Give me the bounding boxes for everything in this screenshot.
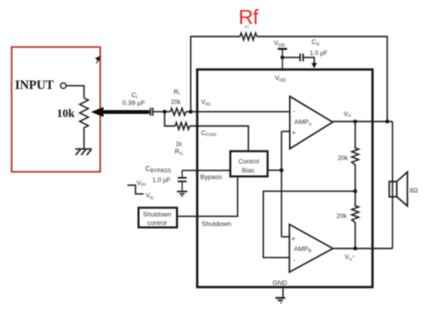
svg-text:20k: 20k bbox=[338, 155, 349, 162]
chassis ground (input) bbox=[75, 149, 92, 155]
capacitor CS 1.0uF bbox=[300, 54, 303, 62]
ground arrow (CS) bbox=[311, 63, 317, 68]
node dot Rf/Vo- bbox=[385, 120, 389, 124]
svg-text:Rf: Rf bbox=[239, 6, 259, 29]
potentiometer VR1 10k bbox=[80, 98, 89, 132]
wire terminal to potentiometer top bbox=[66, 86, 84, 98]
shutdown control block bbox=[139, 208, 178, 228]
wire bias vertical bbox=[281, 131, 283, 236]
wire bias to AMP A non-inverting input bbox=[282, 130, 290, 132]
node Vo+ dot bbox=[353, 247, 357, 251]
node A junction dot bbox=[163, 110, 167, 114]
wire VIN node into AMP A inverting input bbox=[186, 111, 290, 113]
wire Ci to node A bbox=[154, 111, 171, 113]
svg-text:20k: 20k bbox=[171, 100, 182, 106]
thick annotation arrow pointing at pot wiper bbox=[91, 107, 150, 117]
svg-text:+: + bbox=[291, 236, 295, 243]
step waveform symbol VIH/VIL bbox=[127, 185, 143, 194]
speaker driver bbox=[389, 182, 397, 197]
wire feedback riser VIN node to Rf bbox=[191, 37, 240, 112]
op-amp AMP A bbox=[290, 96, 333, 149]
svg-text:Shutdown: Shutdown bbox=[143, 211, 172, 218]
svg-text:GND: GND bbox=[273, 280, 288, 287]
wire bias to AMP B non-inverting input bbox=[282, 236, 290, 238]
svg-text:20k: 20k bbox=[336, 213, 347, 220]
op-amp AMP B bbox=[289, 224, 333, 272]
input terminal circle bbox=[61, 83, 67, 89]
svg-text:0.39 µF: 0.39 µF bbox=[122, 100, 145, 107]
node VIN junction dot bbox=[189, 110, 193, 114]
IC package box U1 bbox=[197, 70, 372, 288]
wire feedback to AMP B inverting input bbox=[263, 191, 355, 257]
supply VDD T symbol bbox=[278, 49, 287, 70]
wire bypass pin to control bias bbox=[182, 169, 230, 171]
cursor mark at red box top right bbox=[96, 57, 100, 64]
svg-text:1.0 µF: 1.0 µF bbox=[310, 50, 328, 57]
wire Vo+ output net bbox=[333, 248, 393, 250]
svg-text:control: control bbox=[147, 220, 166, 227]
node bias junction dot bbox=[280, 168, 284, 172]
node VDD junction dot bbox=[281, 56, 285, 60]
wire VDD node to CS bbox=[282, 56, 299, 58]
wire shutdown pin to control bias bottom bbox=[177, 176, 238, 216]
resistor 20k upper bbox=[352, 122, 359, 192]
svg-text:1k: 1k bbox=[176, 142, 183, 148]
resistor Ri 20k bbox=[170, 108, 186, 115]
resistor RC 1k bbox=[175, 123, 189, 130]
node mid 20k junction dot bbox=[353, 189, 357, 193]
resistor Rf bbox=[240, 33, 257, 40]
wire pot bottom to ground bbox=[83, 132, 85, 149]
wire speaker vertical bbox=[392, 122, 394, 249]
wire RC to CCHG pin and control bias top bbox=[190, 126, 249, 151]
svg-text:Bypass: Bypass bbox=[200, 174, 222, 181]
svg-text:10k: 10k bbox=[57, 108, 76, 120]
svg-text:+: + bbox=[292, 130, 296, 137]
wire 1k branch from node A bbox=[165, 112, 176, 126]
svg-text:Control: Control bbox=[238, 158, 259, 165]
wire Rf to Vo- node (feedback) bbox=[257, 37, 387, 122]
ground (CBYPASS) bbox=[177, 192, 187, 197]
speaker cone bbox=[397, 172, 408, 206]
wire control bias to bias node bbox=[268, 169, 282, 171]
capacitor Ci 0.39uF plates bbox=[151, 108, 153, 116]
wire CS to ground arrow bbox=[303, 57, 314, 63]
wire Vo- output net bbox=[333, 121, 393, 123]
svg-text:Shutdown: Shutdown bbox=[202, 221, 232, 228]
capacitor CBYPASS 1.0uF to ground bbox=[178, 170, 187, 191]
svg-text:1.0 µF: 1.0 µF bbox=[152, 177, 170, 184]
node Vo- dot at 20k bbox=[353, 120, 357, 124]
ground (GND pin) bbox=[282, 288, 284, 297]
resistor 20k lower bbox=[352, 191, 359, 248]
svg-text:8Ω: 8Ω bbox=[410, 187, 418, 194]
svg-text:INPUT: INPUT bbox=[15, 78, 55, 92]
svg-text:Bias: Bias bbox=[242, 168, 254, 175]
red annotation box around input network bbox=[12, 47, 101, 172]
control bias block bbox=[230, 151, 267, 176]
